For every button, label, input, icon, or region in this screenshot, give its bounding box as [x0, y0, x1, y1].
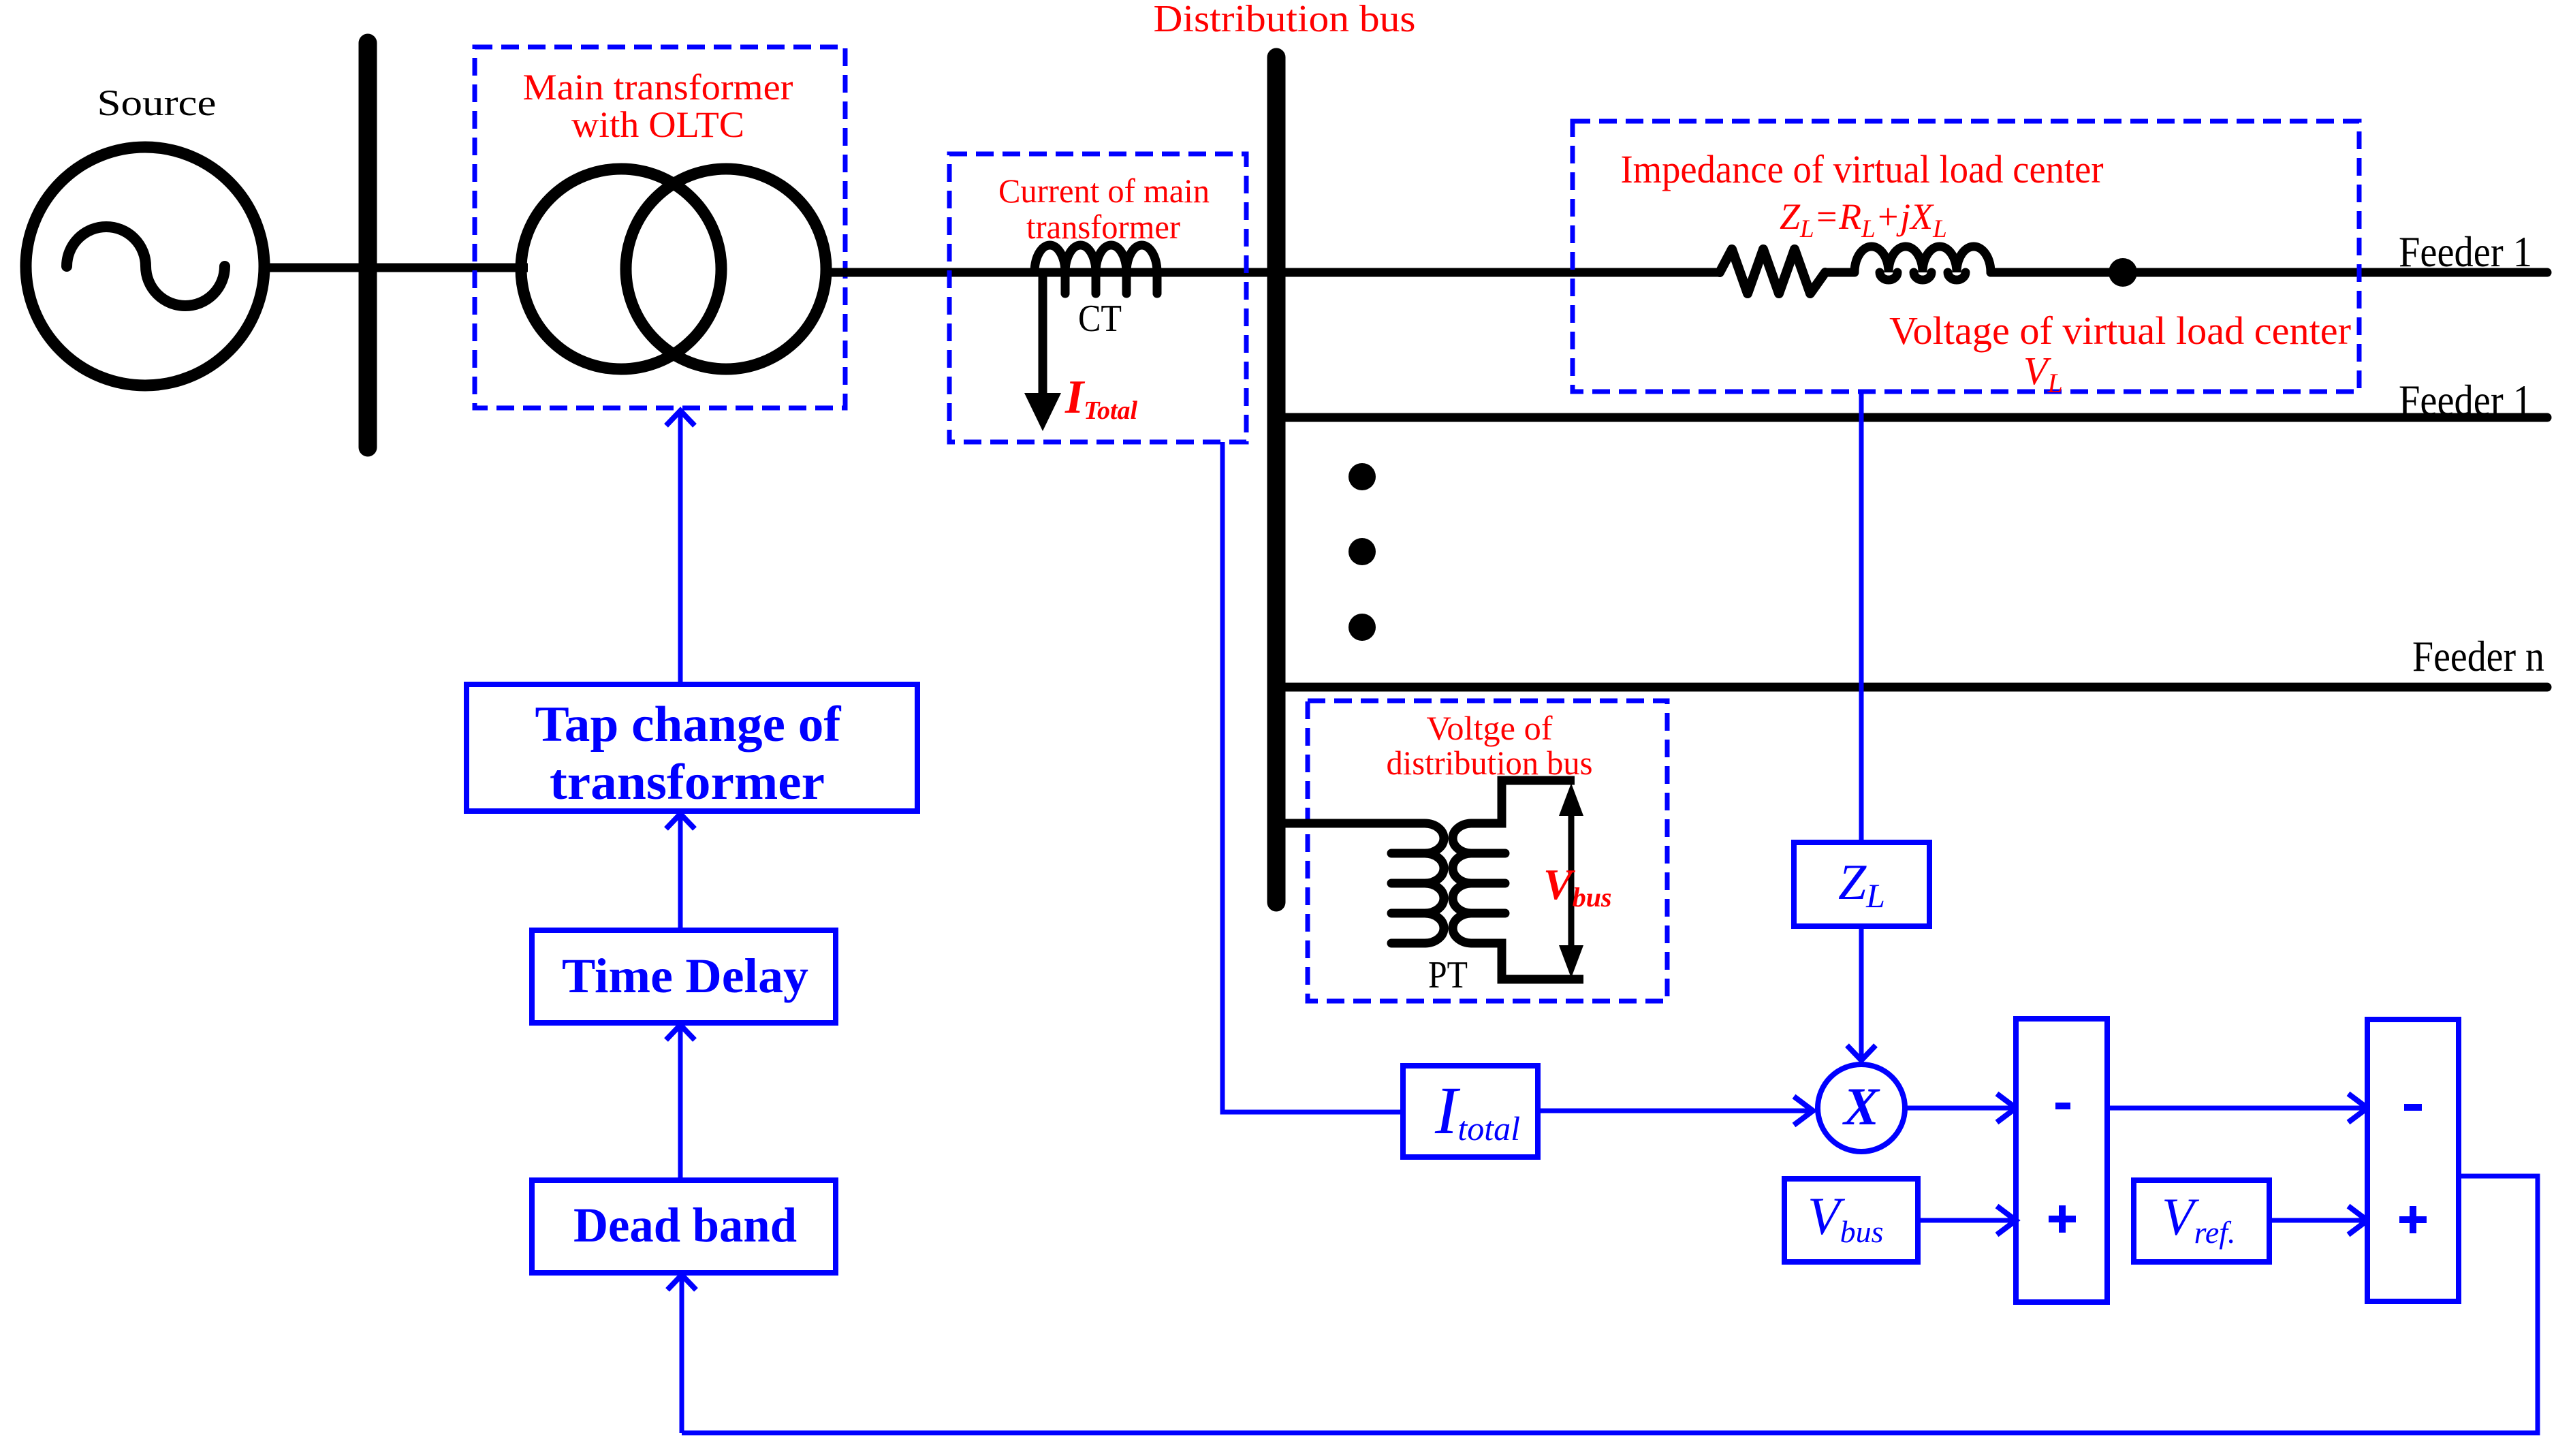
V_bus measurement double arrow [1568, 814, 1575, 947]
svg-text:transformer: transformer [550, 755, 825, 810]
source G1 [26, 147, 264, 385]
wire summer 1 to summer 2 [2107, 1106, 2364, 1111]
wire source to transformer [263, 264, 528, 272]
resistor R_L [1720, 249, 1825, 294]
V_L signal wire [1859, 394, 1864, 1060]
feedback wire [682, 1176, 2538, 1433]
PT secondary winding [1453, 823, 1505, 943]
dashed box PT [1308, 701, 1667, 1001]
block V_ref [2134, 1180, 2269, 1262]
wire transformer to distribution bus [825, 268, 1280, 277]
block I_total [1403, 1066, 1538, 1157]
svg-text:Tap change of: Tap change of [535, 697, 842, 753]
svg-text:VL: VL [2023, 349, 2063, 398]
svg-text:ZL=RL+jXL: ZL=RL+jXL [1780, 196, 1947, 243]
svg-text:Voltge of: Voltge of [1427, 709, 1553, 747]
arrow I_Total (CT secondary) [1039, 272, 1047, 393]
node dot virtual load center [2109, 258, 2137, 287]
svg-text:Dead band: Dead band [573, 1198, 797, 1252]
summer 2 minus [2404, 1104, 2422, 1111]
PT primary winding [1391, 823, 1444, 943]
block V_bus [1784, 1179, 1918, 1262]
summer 2 [2367, 1019, 2459, 1301]
wire multiplier to summer 1 [1905, 1106, 2013, 1111]
I_total signal wire [1222, 442, 1403, 1112]
block Dead band [532, 1180, 836, 1273]
svg-text:Impedance of virtual load cent: Impedance of virtual load center [1621, 147, 2104, 191]
svg-text:CT: CT [1078, 298, 1122, 340]
svg-text:ITotal: ITotal [1064, 371, 1138, 425]
inductor X_L [1855, 247, 1991, 280]
svg-text:Time Delay: Time Delay [562, 949, 808, 1003]
svg-text:with OLTC: with OLTC [571, 104, 744, 145]
summer 1 plus [2049, 1216, 2076, 1222]
svg-text:Distribution bus: Distribution bus [1154, 0, 1416, 40]
block Tap change of transformer [467, 684, 917, 811]
CT coil [1035, 245, 1157, 294]
blue arrow time delay to tap change [678, 814, 683, 930]
blue arrow feedback to dead band [680, 1275, 684, 1433]
ellipsis dots [1348, 463, 1376, 490]
blue arrow dead band to time delay [678, 1025, 683, 1180]
PT tap wire [1280, 819, 1425, 828]
block Time Delay [532, 930, 836, 1023]
svg-text:Voltage of virtual load center: Voltage of virtual load center [1889, 308, 2351, 353]
feeder 1 lower line [1280, 413, 2547, 422]
svg-text:Source: Source [97, 82, 217, 123]
svg-text:Feeder 1: Feeder 1 [2399, 227, 2532, 276]
svg-text:PT: PT [1428, 954, 1468, 996]
svg-text:Main transformer: Main transformer [523, 67, 793, 108]
wire I_total to multiplier [1538, 1109, 1812, 1113]
block Z_L [1794, 842, 1929, 926]
summer 1 [2016, 1019, 2107, 1302]
transformer T1 secondary circle [626, 169, 826, 369]
blue arrow tap change to transformer [678, 412, 683, 684]
dashed box CT [949, 154, 1246, 442]
PT secondary bottom wire [1472, 943, 1583, 979]
busbar HV [359, 43, 377, 447]
svg-text:Feeder n: Feeder n [2412, 632, 2544, 680]
PT secondary top wire [1472, 780, 1575, 823]
dashed box impedance of virtual load center [1573, 121, 2359, 392]
dashed box main transformer [475, 47, 845, 408]
svg-text:Current of main: Current of main [998, 172, 1210, 210]
feeder n line [1280, 683, 2547, 692]
svg-text:Feeder 1: Feeder 1 [2399, 376, 2532, 424]
summer 1 minus [2055, 1103, 2070, 1109]
summer 2 plus [2399, 1216, 2427, 1223]
multiplier X [1818, 1064, 1905, 1152]
transformer T1 primary circle [521, 169, 721, 369]
svg-text:X: X [1842, 1077, 1880, 1136]
feeder 1 line [1280, 268, 1720, 277]
wire V_ref to summer 2 [2269, 1218, 2364, 1223]
svg-text:Vbus: Vbus [1543, 860, 1612, 913]
wire V_bus to summer 1 [1918, 1218, 2013, 1223]
distribution bus bar [1267, 57, 1286, 902]
svg-text:transformer: transformer [1026, 208, 1180, 246]
